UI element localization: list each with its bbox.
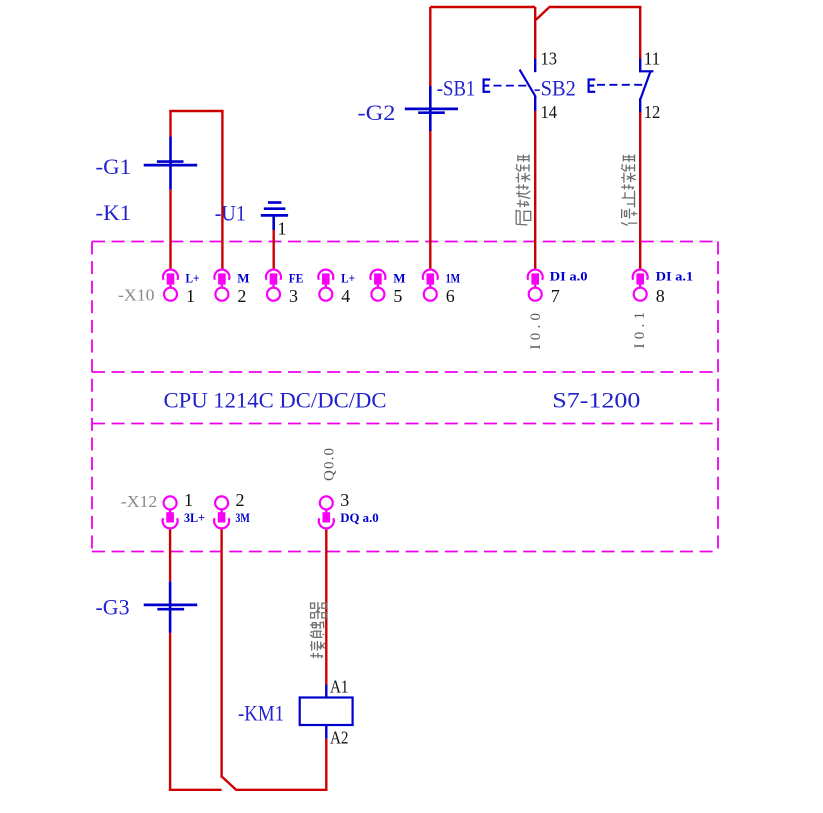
wire: KM1 A2 down to bottom bus <box>325 739 327 791</box>
svg-text:2: 2 <box>237 286 246 306</box>
battery G2 long plate <box>405 108 458 111</box>
svg-text:-X10: -X10 <box>118 286 155 305</box>
actuator E of SB1 vertical stroke <box>483 79 485 93</box>
earth symbol U1 bottom line <box>261 214 288 217</box>
actuator E of SB2 mid stroke <box>588 84 595 86</box>
svg-text:12: 12 <box>644 102 661 122</box>
svg-text:A1: A1 <box>330 677 349 697</box>
terminal X12:2 <box>214 496 229 528</box>
wire: SB2 to terminal X10:8 <box>639 112 641 270</box>
battery G2 short plate <box>418 111 445 114</box>
svg-text:1: 1 <box>278 219 287 239</box>
PLC enclosure dashed box (outer) <box>92 242 718 552</box>
function text 停止按钮 (vertical, at SB2 wire) <box>621 155 637 226</box>
svg-text:-K1: -K1 <box>96 200 132 225</box>
earth symbol U1 stem <box>272 215 275 230</box>
battery G2 body wire <box>429 86 432 131</box>
actuator dashed link SB1 <box>494 85 529 87</box>
svg-text:4: 4 <box>341 286 350 306</box>
svg-text:L+: L+ <box>341 271 355 286</box>
svg-text:DI a.0: DI a.0 <box>550 269 588 284</box>
wire: G1 loop top horizontal <box>169 110 223 112</box>
svg-text:3L+: 3L+ <box>184 510 205 525</box>
svg-text:3M: 3M <box>235 510 250 525</box>
wire: top bus horizontal right segment <box>549 6 642 8</box>
svg-text:L+: L+ <box>186 271 200 286</box>
wire: U1 earth to terminal X10:3 <box>273 230 275 270</box>
wire: to terminal X10:2 <box>221 111 223 270</box>
actuator E of SB1 bottom stroke <box>483 91 491 93</box>
terminal X10:8 <box>633 270 648 301</box>
battery G1 long plate <box>144 164 198 167</box>
svg-text:8: 8 <box>656 286 665 306</box>
actuator dashed link SB2 <box>597 84 644 86</box>
svg-text:-U1: -U1 <box>215 201 246 226</box>
battery G3 body wire <box>169 581 172 633</box>
svg-text:Q0.0: Q0.0 <box>322 448 338 481</box>
wire: G1 to terminal X10:1 <box>169 190 171 270</box>
svg-text:-SB1: -SB1 <box>437 76 476 101</box>
actuator E of SB1 top stroke <box>483 78 491 80</box>
svg-text:-G1: -G1 <box>96 154 132 179</box>
svg-text:5: 5 <box>393 286 402 306</box>
svg-text:M: M <box>393 271 405 286</box>
svg-text:3: 3 <box>289 286 298 306</box>
svg-text:DI a.1: DI a.1 <box>656 269 694 284</box>
wire: SB1 branch upper <box>534 7 536 59</box>
terminal X10:7 <box>528 270 543 301</box>
pushbutton SB1 moving contact <box>520 70 536 97</box>
terminal X10:4 <box>318 270 333 301</box>
function text 接触器 (vertical, at KM1 wire) <box>310 602 326 658</box>
wire: SB1 to terminal X10:7 <box>534 111 536 270</box>
contactor coil KM1 upper stub (A1) <box>325 685 327 698</box>
svg-text:S7-1200: S7-1200 <box>552 388 640 413</box>
terminal X10:3 <box>266 270 281 301</box>
wire: bottom bus horizontal right segment <box>236 789 327 791</box>
svg-text:1: 1 <box>186 286 195 306</box>
wire: G2 branch vertical upper <box>429 7 431 86</box>
svg-text:11: 11 <box>644 49 661 69</box>
contactor coil KM1 lower stub (A2) <box>325 725 327 739</box>
wire: terminal X12:1 down to G3 <box>169 529 171 581</box>
earth symbol U1 middle line <box>264 207 286 210</box>
actuator E of SB1 mid stroke <box>483 84 490 86</box>
svg-text:CPU 1214C DC/DC/DC: CPU 1214C DC/DC/DC <box>164 388 387 413</box>
terminal X12:3 <box>319 496 334 528</box>
terminal X10:2 <box>214 270 229 301</box>
pushbutton SB2 seat bar <box>639 70 654 72</box>
wire: SB2 branch upper <box>639 7 641 59</box>
wire: bottom bus horizontal left segment <box>169 789 222 791</box>
pushbutton SB1 lower stub (pin 14) <box>534 97 536 111</box>
terminal X10:5 <box>370 270 385 301</box>
svg-text:1M: 1M <box>446 271 461 286</box>
wire: G1 branch vertical upper <box>169 111 171 137</box>
actuator E of SB2 vertical stroke <box>587 79 589 93</box>
svg-text:2: 2 <box>236 490 245 510</box>
svg-text:3: 3 <box>340 490 349 510</box>
wire junction: bottom bus diagonal jog at X12:2 <box>222 777 236 790</box>
actuator E of SB2 top stroke <box>588 78 596 80</box>
battery G3 short plate <box>157 608 184 611</box>
svg-text:14: 14 <box>541 102 558 122</box>
wire: terminal X12:3 down to KM1 A1 <box>325 529 327 685</box>
earth symbol U1 top line <box>268 201 282 204</box>
actuator E of SB2 bottom stroke <box>588 91 596 93</box>
svg-text:DQ a.0: DQ a.0 <box>340 510 379 525</box>
PLC inner dashed divider (upper) <box>92 371 718 373</box>
svg-text:13: 13 <box>541 49 558 69</box>
svg-text:-KM1: -KM1 <box>238 701 284 726</box>
terminal X12:1 <box>163 496 178 528</box>
pushbutton SB1 upper stub (pin 13) <box>534 59 536 72</box>
svg-text:-X12: -X12 <box>121 492 158 511</box>
PLC inner dashed divider (lower) <box>92 423 718 425</box>
pushbutton SB2 lower stub (pin 12) <box>639 98 641 112</box>
wire: terminal X12:2 down <box>220 529 222 778</box>
function text 启动按钮 (vertical, at SB1 wire) <box>516 155 531 225</box>
svg-text:M: M <box>237 271 249 286</box>
svg-text:A2: A2 <box>330 728 349 748</box>
battery G1 body wire <box>169 137 172 190</box>
svg-text:-G2: -G2 <box>358 100 396 125</box>
pushbutton SB2 moving contact <box>641 71 651 99</box>
svg-text:7: 7 <box>551 286 560 306</box>
svg-text:-SB2: -SB2 <box>534 76 576 101</box>
svg-text:6: 6 <box>446 286 455 306</box>
terminal X10:6 <box>423 270 438 301</box>
svg-text:-G3: -G3 <box>96 595 130 620</box>
pushbutton SB2 upper stub (pin 11) <box>639 59 641 72</box>
battery G1 short plate <box>157 160 184 163</box>
terminal X10:1 <box>163 270 178 301</box>
contactor coil KM1 body <box>300 698 353 726</box>
svg-text:1: 1 <box>184 490 193 510</box>
wire: G3 down to bottom bus <box>169 633 171 791</box>
svg-text:FE: FE <box>289 271 304 286</box>
wire: top bus horizontal left segment <box>430 6 535 8</box>
wire: G2 to terminal X10:6 <box>429 131 431 270</box>
battery G3 long plate <box>144 604 198 607</box>
wire junction: top bus diagonal jog at SB1 <box>536 8 549 20</box>
